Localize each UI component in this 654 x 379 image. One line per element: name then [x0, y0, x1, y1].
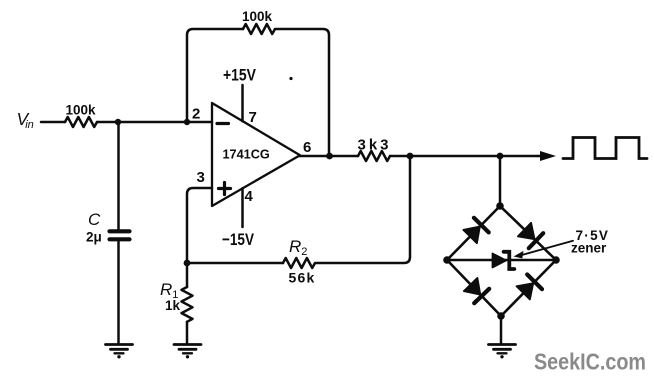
wire junction E to bridge top	[499, 156, 502, 206]
node junction A (cap tap)	[115, 119, 121, 125]
wire Vin lead	[41, 121, 65, 124]
svg-text:4: 4	[245, 188, 254, 205]
svg-text:100k: 100k	[65, 103, 96, 118]
node junction output (feedback drop)	[326, 153, 333, 160]
diode D3 (left to bottom)	[464, 278, 489, 303]
op-amp U1 triangle	[212, 103, 300, 206]
node junction D (R2 riser tap)	[407, 153, 414, 160]
wire pin 4 supply drop	[241, 188, 244, 227]
wire pin 7 supply riser	[241, 85, 244, 121]
svg-text:Vin: Vin	[17, 109, 34, 131]
op-amp plus input marking	[219, 183, 231, 195]
svg-text:2: 2	[192, 106, 200, 123]
node junction E (bridge tap)	[497, 153, 504, 160]
ground (bridge)	[489, 345, 516, 359]
resistor R1 1k (zigzag)	[182, 287, 193, 322]
svg-text:−15V: −15V	[222, 230, 255, 249]
zener callout arrow	[514, 241, 574, 259]
svg-text:3k3: 3k3	[358, 137, 392, 154]
op-amp minus input marking	[217, 122, 229, 125]
diode D1 (left to top)	[463, 218, 488, 243]
wire junction C to R1	[186, 263, 189, 287]
svg-text:2μ: 2μ	[86, 230, 102, 245]
svg-text:6: 6	[303, 139, 311, 156]
svg-text:56k: 56k	[289, 270, 316, 286]
stray ink speck	[289, 77, 292, 80]
output arrowhead	[540, 151, 556, 161]
resistor R_fb 100k (zigzag)	[243, 24, 275, 34]
wire zener branch (bridge middle)	[447, 259, 556, 262]
node bridge right vertex	[552, 256, 560, 264]
wire input node to op-amp pin 2	[97, 121, 212, 124]
resistor R_out 3k3 (zigzag)	[358, 151, 390, 161]
diode bridge frame	[447, 206, 556, 316]
diode D2 (top to right)	[518, 223, 543, 248]
square wave output symbol	[563, 138, 647, 159]
zener diode Z1 7.5V	[493, 252, 515, 269]
ground (capacitor)	[106, 345, 133, 359]
svg-text:+15V: +15V	[223, 66, 257, 85]
wire 3k3 to arrow	[390, 155, 541, 158]
diode D4 (bottom to right)	[517, 275, 543, 300]
node junction B (feedback tap / pin2)	[184, 119, 190, 125]
svg-text:zener: zener	[571, 241, 607, 256]
wire feedback loop (left riser + top run + right drop)	[187, 29, 329, 156]
svg-text:C: C	[88, 210, 101, 229]
wire capacitor top branch	[117, 122, 120, 229]
capacitor C 2u plates	[110, 231, 130, 239]
node bridge top vertex	[496, 202, 504, 210]
resistor R2 56k (zigzag)	[283, 258, 315, 268]
wire R2 to output riser	[316, 156, 410, 263]
wire op-amp output to 3k3	[299, 155, 358, 158]
wire junction C to R2	[187, 262, 283, 265]
svg-text:3: 3	[197, 169, 205, 186]
svg-text:1k: 1k	[165, 298, 181, 313]
svg-text:SeekIC.com: SeekIC.com	[534, 349, 646, 375]
wire capacitor bottom branch	[117, 242, 120, 344]
node junction C (R1/R2 tap)	[184, 260, 191, 267]
resistor R_in 100k (zigzag)	[65, 117, 97, 127]
svg-text:100k: 100k	[242, 9, 273, 24]
node bridge left vertex	[443, 256, 451, 264]
svg-text:R2: R2	[289, 237, 307, 258]
ground (R1)	[174, 345, 201, 359]
wire bridge bottom to ground	[500, 316, 503, 343]
wire pin 3 branch	[187, 188, 212, 263]
wire R1 to ground	[186, 322, 189, 343]
node bridge bottom vertex	[497, 312, 505, 320]
svg-text:7: 7	[249, 109, 257, 126]
svg-text:1741CG: 1741CG	[223, 148, 270, 162]
